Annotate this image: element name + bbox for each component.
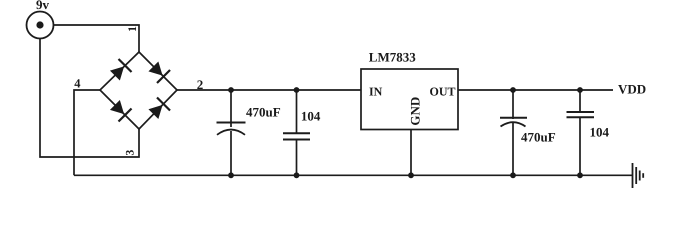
wire regulator GND pin to ground rail [410,130,412,176]
wire from 9v connector to bridge top [54,25,140,52]
svg-text:3: 3 [125,149,137,155]
connector J1 9v [27,12,54,39]
svg-text:470uF: 470uF [246,104,281,119]
junction dot node2/C1 [228,87,234,93]
svg-text:470uF: 470uF [521,130,556,145]
svg-text:VDD: VDD [618,82,646,97]
capacitor C1 470uF [217,90,246,175]
junction dot GND pin [408,172,414,178]
svg-text:9v: 9v [36,0,50,12]
svg-text:LM7833: LM7833 [369,49,416,64]
capacitor C4 104 [567,90,595,175]
ground rail wire [74,174,632,176]
junction dot C2 top [294,87,300,93]
wire from 9v connector to bridge bottom node 3 [40,39,139,158]
svg-text:1: 1 [127,26,139,32]
junction dot C2 bottom [294,172,300,178]
svg-text:IN: IN [369,84,383,98]
wire from bridge node 2 to regulator IN [177,89,361,91]
svg-text:2: 2 [197,77,204,92]
ground symbol [633,163,644,188]
wire from regulator OUT to VDD [458,89,613,91]
diode upper-left (node4 to node1) [110,59,132,81]
regulator U1 LM7833 box [361,69,458,130]
diode lower-right (node3 to node2) [148,97,170,119]
bridge rectifier diamond outline [100,52,177,129]
junction dot C1 bottom [228,172,234,178]
svg-text:104: 104 [301,109,321,124]
capacitor C3 470uF [500,90,527,175]
junction dot C4 top [577,87,583,93]
diode upper-right (node1 to node2) [148,61,170,83]
diode lower-left (node4 to node3) [110,100,132,122]
junction dot C3 bottom [510,172,516,178]
svg-text:104: 104 [590,125,610,140]
capacitor C2 104 [283,90,310,175]
junction dot C3 top [510,87,516,93]
wire from bridge node 4 to ground rail [74,90,100,175]
svg-text:GND: GND [408,97,423,126]
svg-text:OUT: OUT [430,84,456,98]
svg-text:4: 4 [74,77,81,91]
junction dot C4 bottom [577,172,583,178]
